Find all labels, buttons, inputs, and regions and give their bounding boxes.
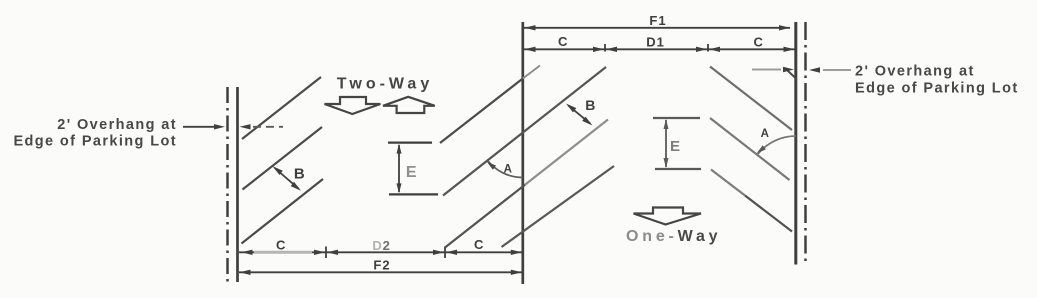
A angle arc right module: [757, 136, 796, 155]
E dimension bottom bar left module: [389, 193, 438, 195]
one-way down block arrow: [634, 208, 702, 225]
dimension line F2: [239, 270, 522, 275]
stall line Y3 lower part: [745, 196, 792, 232]
svg-text:D1: D1: [646, 35, 665, 50]
faded segment on bottom dimension line: [254, 251, 312, 254]
stall line left-module upper: [242, 77, 321, 139]
svg-text:F1: F1: [649, 13, 666, 28]
left overhang leader line: [183, 124, 225, 129]
left lot edge solid line: [236, 87, 239, 282]
right overhang leader arrow: [809, 67, 851, 72]
label D1: [646, 35, 665, 50]
center lot line: [521, 22, 524, 284]
tick C/D1 boundary: [593, 44, 617, 52]
E dimension top bar left module: [388, 142, 432, 144]
stall line Y3 upper part: [711, 170, 745, 196]
label F2: [373, 258, 390, 273]
dimension line F1: [524, 25, 790, 30]
stall line X4: [502, 166, 615, 247]
right overhang text: [855, 64, 1019, 97]
label A right module: [761, 128, 770, 140]
tick D1/C boundary: [696, 44, 720, 52]
label Two-Way: [337, 76, 433, 93]
stall line Y2: [710, 118, 790, 180]
stall line stub at right edge: [788, 71, 797, 80]
svg-text:D2: D2: [372, 238, 390, 253]
label C top-left: [558, 34, 568, 49]
svg-text:E: E: [406, 164, 417, 181]
stall line left-module lower: [242, 179, 324, 244]
svg-text:2' Overhang at: 2' Overhang at: [855, 64, 975, 80]
stall line X3 upper part: [525, 120, 608, 185]
svg-text:C: C: [558, 34, 568, 49]
tick C/D2 boundary: [314, 247, 338, 259]
svg-text:Two-Way: Two-Way: [337, 76, 433, 93]
label C bottom-right: [474, 237, 484, 252]
label One-Way: [626, 228, 721, 245]
right lot edge solid line: [794, 22, 797, 265]
label E left module: [406, 164, 417, 181]
A angle arc left module: [487, 161, 523, 178]
E dimension bottom bar right module: [655, 168, 701, 170]
B dimension arrow right module: [566, 104, 593, 126]
svg-text:One-Way: One-Way: [626, 228, 721, 245]
right overhang inner arrow: [752, 67, 794, 72]
svg-text:Edge of Parking Lot: Edge of Parking Lot: [855, 81, 1019, 97]
svg-text:A: A: [761, 128, 770, 140]
tick D2/C boundary: [433, 247, 457, 259]
E dimension top bar right module: [653, 117, 700, 119]
svg-text:Edge of Parking Lot: Edge of Parking Lot: [13, 134, 177, 150]
dimension line C-D2-C bottom: [239, 250, 522, 255]
E dimension arrow line right module: [664, 119, 669, 168]
svg-text:C: C: [474, 237, 484, 252]
dimension line C-D1-C top: [524, 47, 795, 52]
svg-text:2' Overhang at: 2' Overhang at: [57, 117, 177, 133]
two-way down block arrow: [325, 97, 381, 114]
label B right module: [585, 97, 596, 113]
label D2: [372, 238, 390, 253]
svg-text:C: C: [754, 35, 764, 50]
svg-text:B: B: [585, 97, 596, 113]
label C top-right: [754, 35, 764, 50]
svg-text:E: E: [670, 138, 681, 155]
svg-text:A: A: [504, 163, 513, 175]
left lot edge dash-dot line: [226, 87, 229, 282]
stall line X1 gray stub: [523, 66, 540, 79]
right lot edge dash-dot line: [804, 22, 807, 265]
stall line left-module middle: [243, 127, 323, 190]
label E right module: [670, 138, 681, 155]
stall line X1 dark part: [440, 79, 523, 144]
label C bottom-left: [276, 237, 286, 252]
stall line Y1: [710, 67, 792, 131]
label F1: [649, 13, 666, 28]
svg-text:F2: F2: [373, 258, 390, 273]
label A left module: [504, 163, 513, 175]
two-way up block arrow: [383, 97, 435, 113]
E dimension arrow line left module: [397, 144, 402, 194]
stall line X3 lower part: [445, 185, 525, 248]
left overhang inner arrow: [240, 124, 284, 129]
label B left module: [294, 166, 305, 183]
svg-text:C: C: [276, 237, 286, 252]
left overhang text: [13, 117, 177, 150]
B dimension arrow left module: [273, 166, 302, 191]
stall line X2: [443, 67, 606, 196]
svg-text:B: B: [294, 166, 305, 183]
